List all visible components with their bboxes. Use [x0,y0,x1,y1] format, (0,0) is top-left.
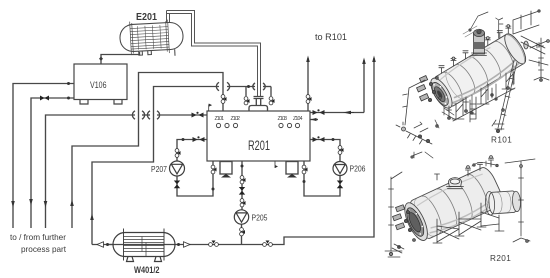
valve on P207 suction [193,137,205,142]
R201 misc top-left fittings [411,152,433,158]
R201 left head nozzles [393,205,416,242]
valve on header left of P205 [209,243,219,247]
dark valve below P207 [174,181,180,189]
R101 left piping [396,80,439,144]
3D view reactor R201 [385,152,535,263]
valve on line C at R201 inlet [192,113,204,118]
junction dot on P206 return [303,180,306,183]
stub arrow into R201 right side [310,119,318,121]
R201 shell [400,165,506,244]
wire: P205 suction from R201 bottom [241,162,244,245]
wire: V106 left line B [31,98,74,228]
svg-text:V106: V106 [90,80,107,91]
R101 top nozzle row [439,25,511,74]
svg-text:Z102: Z102 [231,116,241,122]
R101 underside pipes [442,88,493,120]
pump P205 [234,210,248,224]
svg-text:R201: R201 [248,138,270,153]
junction dot P205 suction [241,165,244,168]
3D view reactor R101 [396,10,549,145]
R201 right channel cylinder [485,189,522,215]
wire: R201 left lower outlet to P207 [177,140,213,197]
wire: line E to dome valves (and down to W401/2) [92,82,271,244]
svg-text:R201: R201 [490,254,511,263]
open flow arrow right of W401/2 [184,242,191,248]
wire: to R101 riser from R201 top [307,58,309,111]
valve below P205 [240,228,244,236]
junction dot P207 line [182,138,185,141]
R201 support leg right [286,162,298,175]
R101 shell [427,31,530,112]
wire: line D up-and-over to R201 top nozzle [72,73,223,229]
heat exchanger E201 [119,19,184,59]
valve stack on R201 top nozzle x223 [221,95,225,104]
R201 dome manhole [447,178,464,189]
flow arrow up on line 5 [90,214,94,221]
svg-text:E201: E201 [136,12,157,23]
valve stack above P207 [175,149,179,158]
wire: E201 outlet double pipe to R201 dome [167,11,261,97]
valve on R201 right top outlet [313,110,325,115]
svg-text:Z101: Z101 [215,116,225,122]
junction dot A [67,82,70,85]
R101 right head pipes [524,38,549,81]
vessel V106 [74,64,127,104]
R101 left head nozzle cluster [417,76,442,102]
valve stack on P205 suction [240,176,244,184]
valve stack above P206 [338,146,342,155]
svg-text:W401/2: W401/2 [134,265,160,276]
valve on header right of P205 [263,243,273,247]
svg-text:Z104: Z104 [293,116,303,122]
R201 left piping [385,172,404,257]
pump P206 [333,162,347,176]
valve on P206 suction [313,137,325,142]
wire: V106 left line A [13,84,74,229]
junction dot on P207 return [212,188,215,191]
svg-text:P207: P207 [151,165,167,174]
svg-text:Z103: Z103 [278,116,288,122]
flow arrow up on line 4 [70,200,74,207]
junction dot P206 line [332,138,335,141]
svg-text:to / from further: to / from further [10,233,66,242]
wire: E201 bottom to V106 top [101,52,140,64]
svg-text:to R101: to R101 [315,32,347,43]
dark valve below P206 [337,181,343,189]
heat exchanger W401/2 [113,229,175,262]
svg-text:P206: P206 [350,165,366,174]
R101 vent pipe top [463,12,503,38]
R101 supports and ladder [444,69,515,122]
dome left branch with valve [245,87,247,97]
R201 dome manway [249,97,268,112]
svg-text:P205: P205 [252,214,268,223]
valve on line B [40,96,49,101]
reducer dot on V106 top line [99,57,103,61]
valve stack on R201 bottom left [211,165,215,174]
junction dot B [67,97,70,100]
svg-text:process part: process part [21,245,67,254]
sight glasses left [216,123,237,127]
junction dot on dome header [247,85,250,88]
R201 support leg left [220,162,232,175]
R201 support truss [433,203,504,243]
flow arrow down on line 2 [29,199,33,206]
pump P207 [170,161,185,176]
drain flag under R201 [274,162,276,169]
dome right branch with valve [270,87,272,97]
valve stack on to-R101 nozzle [306,95,310,104]
wire: line C to R201 left inlet [46,111,208,228]
flow arrow down on line 1 [11,201,15,208]
R101 right-end downcomer piping [492,60,517,133]
wire: R201 right top outlet to riser [310,60,364,113]
flag on R201 top left [208,105,210,112]
flow arrow down on line 3 [44,201,48,208]
R201 right pipe column [505,159,535,242]
R101 right side pipes [513,10,549,66]
svg-text:R101: R101 [491,136,512,145]
wire: bottom main header [108,58,375,245]
R101 agitator dome [472,29,487,55]
R201 top-right inlet pipe fittings [472,161,498,167]
R201 top nozzles [435,156,494,180]
sight glasses right [279,123,300,127]
valve stack on R201 bottom right [302,165,306,174]
open flow arrow left of W401/2 [92,244,113,246]
reactor R201 [207,111,310,161]
flow arrow left on outlet line [343,111,351,115]
wire: R201 right lower outlet to P206 [304,140,340,197]
